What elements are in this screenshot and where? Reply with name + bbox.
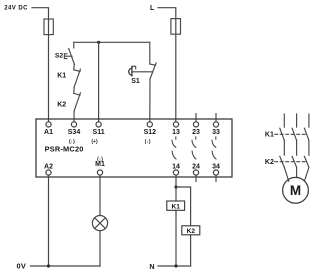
wire A2 to 0V rail xyxy=(48,175,50,266)
fuse F2 xyxy=(171,19,181,35)
svg-text:13: 13 xyxy=(172,129,180,136)
wire coil K1 to N rail xyxy=(175,210,177,266)
svg-text:23: 23 xyxy=(192,129,200,136)
node junction 14 branch xyxy=(174,185,177,188)
svg-text:K1: K1 xyxy=(171,203,180,210)
contact 13-14 (NO, internal) xyxy=(172,137,176,159)
wire S2 to K1 contact xyxy=(73,64,75,69)
terminal 23 xyxy=(192,114,200,136)
node junction bus to S11 xyxy=(97,41,100,44)
svg-text:K1: K1 xyxy=(57,73,66,80)
contact 33-34 (NO, internal) xyxy=(212,137,216,159)
coil K1 xyxy=(167,201,185,210)
svg-text:M: M xyxy=(290,183,301,198)
terminal S11 xyxy=(91,122,104,145)
wire terminal 14 to coil K1 xyxy=(175,175,177,201)
phase L2 wire and contacts xyxy=(292,114,297,177)
pushbutton S2 (reset, NO) xyxy=(64,42,74,64)
svg-text:24: 24 xyxy=(192,163,200,170)
wire horizontal bus from S2 branch to S1 branch xyxy=(74,41,150,43)
svg-text:S2: S2 xyxy=(55,53,64,60)
svg-text:PSR-MC20: PSR-MC20 xyxy=(45,144,84,153)
svg-text:K2: K2 xyxy=(265,159,274,166)
wire L supply to fuse F2 and terminal 13 xyxy=(158,8,176,122)
svg-text:14: 14 xyxy=(172,163,180,170)
svg-text:(+): (+) xyxy=(91,139,98,145)
wire 0V rail xyxy=(31,265,101,267)
svg-text:24V DC: 24V DC xyxy=(4,6,28,12)
svg-text:S34: S34 xyxy=(68,129,81,136)
svg-text:K2: K2 xyxy=(57,101,66,108)
phase L1 wire and contacts xyxy=(280,114,289,181)
terminal A2 xyxy=(44,163,53,175)
wire lamp to 0V rail xyxy=(99,231,101,266)
motor M xyxy=(283,177,309,203)
svg-text:34: 34 xyxy=(212,163,220,170)
wire M1 to lamp xyxy=(99,175,101,215)
wire K2 to terminal S34 xyxy=(73,111,75,122)
svg-text:N: N xyxy=(149,262,154,271)
terminal S12 xyxy=(144,122,157,145)
terminal A1 xyxy=(44,122,53,136)
wire 24V DC supply to fuse F1 and terminal A1 xyxy=(32,8,49,122)
svg-text:A1: A1 xyxy=(44,129,53,136)
svg-text:K1: K1 xyxy=(265,131,274,138)
wire S1 to terminal S12 xyxy=(149,79,151,122)
contact K2 feedback (NC) xyxy=(74,93,81,111)
svg-text:S12: S12 xyxy=(144,129,157,136)
svg-text:L: L xyxy=(150,5,155,12)
terminal 33 xyxy=(212,114,220,136)
wire bus to terminal S11 xyxy=(98,42,100,122)
lamp indicator xyxy=(92,216,107,231)
svg-text:(↓): (↓) xyxy=(145,139,151,145)
contactor K2 main contacts linkage xyxy=(265,159,307,166)
svg-text:0V: 0V xyxy=(17,262,27,271)
wire N rail xyxy=(158,265,191,267)
emergency stop S1 (NC) xyxy=(129,42,156,79)
wire coil K2 to N rail xyxy=(190,235,192,266)
node junction A2/0V xyxy=(47,264,50,267)
wire branch to coil K2 xyxy=(176,187,191,226)
terminal 24 xyxy=(192,163,200,181)
terminal 34 xyxy=(212,163,220,181)
svg-text:A2: A2 xyxy=(44,163,53,170)
coil K2 xyxy=(182,226,200,235)
terminal S34 xyxy=(68,122,81,145)
svg-text:K2: K2 xyxy=(187,228,196,235)
svg-text:33: 33 xyxy=(212,129,220,136)
contact K1 feedback (NC) xyxy=(74,69,81,87)
terminal 14 xyxy=(172,163,180,175)
relay module PSR-MC20 body xyxy=(36,119,232,177)
svg-text:S11: S11 xyxy=(93,129,105,136)
contactor K1 main contacts linkage xyxy=(265,131,307,138)
phase L3 wire and contacts xyxy=(304,114,309,181)
svg-text:(↓): (↓) xyxy=(69,139,75,145)
fuse F1 xyxy=(44,19,53,35)
node junction K1/N xyxy=(174,264,177,267)
svg-text:(↓): (↓) xyxy=(97,156,103,162)
terminal M1 xyxy=(95,156,105,175)
wire K1 to K2 contact xyxy=(73,87,75,93)
svg-text:S1: S1 xyxy=(131,78,140,85)
terminal 13 xyxy=(172,122,180,136)
contact 23-24 (NO, internal) xyxy=(192,137,196,159)
